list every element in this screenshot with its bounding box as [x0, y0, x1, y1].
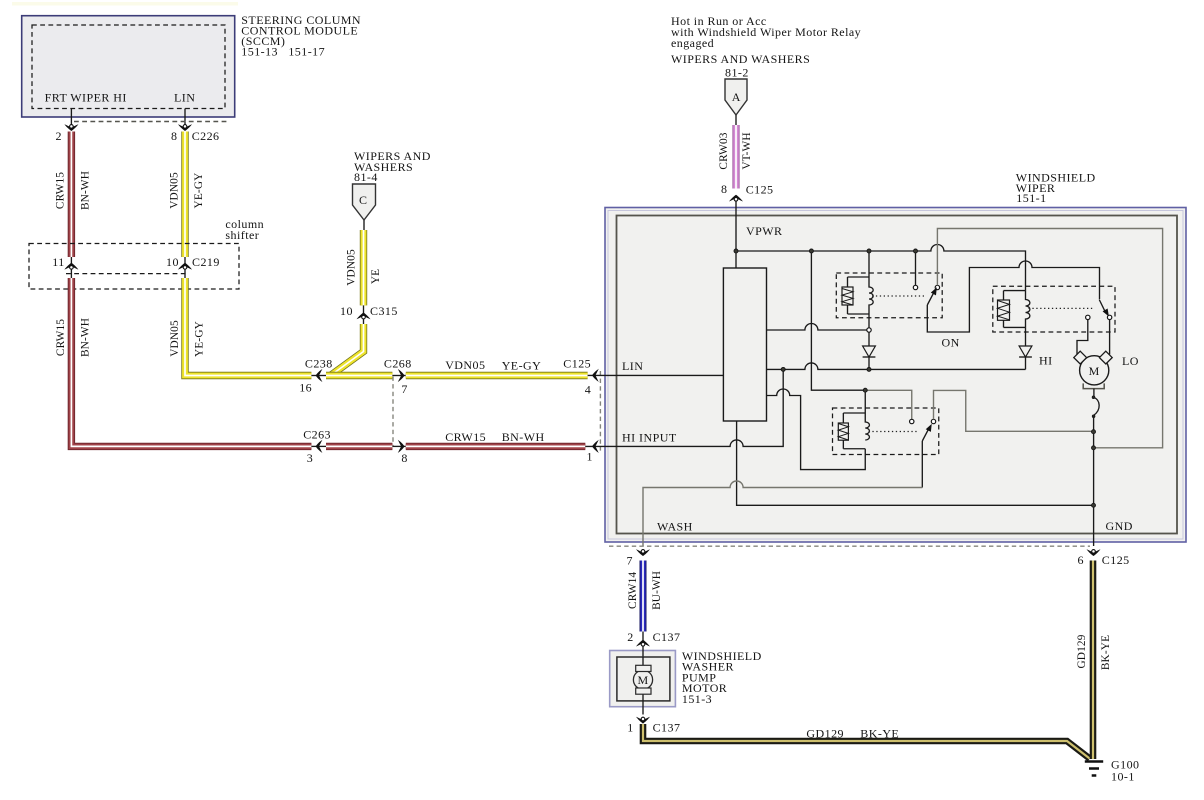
inductor K1 coil	[869, 251, 873, 314]
connector C219 pin10 stub	[184, 257, 186, 278]
svg-text:VDN05: VDN05	[445, 358, 485, 372]
svg-text:C: C	[359, 193, 367, 207]
svg-text:CRW03: CRW03	[718, 132, 730, 169]
connector C238 arrow pin 16	[316, 369, 323, 382]
wire stub below C pentagon	[363, 220, 365, 230]
connector C125 arrow pin 6	[1087, 549, 1101, 556]
module SCCM box	[22, 16, 235, 117]
wire through washer pump	[642, 657, 644, 701]
svg-text:2: 2	[627, 630, 633, 644]
wire HI INPUT into module	[585, 369, 783, 446]
svg-text:shifter: shifter	[225, 228, 259, 242]
diode D1	[863, 346, 876, 357]
svg-text:81-2: 81-2	[725, 66, 749, 80]
connector C315 arrow	[357, 313, 371, 320]
connector C125 arrow pin 4	[592, 369, 599, 382]
wire ON coil drive (y330)	[767, 324, 867, 330]
svg-text:10: 10	[166, 255, 179, 269]
relay K1 actuator dotted link	[872, 295, 924, 297]
svg-text:HI: HI	[1039, 354, 1053, 368]
wire VDN05 YE diagonal to junction	[331, 324, 364, 376]
svg-text:8: 8	[721, 182, 727, 196]
svg-text:151-3: 151-3	[682, 692, 712, 706]
wire washer coil drive	[767, 389, 866, 470]
connector C238 gap line	[311, 375, 327, 377]
ground G100	[1085, 762, 1103, 776]
svg-text:4: 4	[585, 383, 591, 397]
motor M2 washer pump	[633, 665, 652, 694]
connector C125 arrow pin 8	[729, 195, 743, 202]
wire diode D1 to y369	[868, 357, 870, 369]
contact K1 left	[913, 285, 917, 289]
label WINDSHIELD WASHER PUMP MOTOR 151-3	[682, 649, 762, 706]
label WINDSHIELD WIPER 151-1	[1016, 170, 1096, 205]
svg-text:YE-GY: YE-GY	[194, 321, 206, 357]
svg-text:81-4: 81-4	[354, 170, 378, 184]
relay K3 actuator dotted link	[869, 431, 920, 433]
svg-text:LIN: LIN	[174, 91, 195, 105]
connector C268 gap line red	[392, 445, 406, 447]
svg-text:BU-WH: BU-WH	[651, 571, 663, 610]
svg-text:10-1: 10-1	[1111, 770, 1135, 784]
svg-text:HI INPUT: HI INPUT	[622, 431, 677, 445]
resistor K2	[998, 300, 1010, 320]
svg-text:1: 1	[587, 450, 593, 464]
wire K1 NO contact loop to motor low side	[937, 229, 1162, 448]
wire motor to GND pin	[1093, 416, 1095, 546]
svg-text:151-13 151-17: 151-13 151-17	[241, 45, 325, 59]
svg-text:C219: C219	[192, 255, 220, 269]
svg-text:VDN05: VDN05	[169, 320, 181, 357]
motor M1 wiper	[1074, 351, 1112, 388]
svg-text:engaged: engaged	[671, 36, 714, 50]
wire CRW15 BN-WH lower	[71, 278, 311, 446]
wire K2 coil to diode	[1025, 327, 1027, 346]
wire CRW03 VT-WH	[732, 125, 739, 189]
washer pump inner outline	[617, 657, 670, 701]
wire VPWR to K3 NO contact	[865, 390, 912, 419]
connector C137 arrow pin 1	[636, 717, 650, 724]
connector C263 arrow pin 3	[316, 440, 323, 453]
wire CRW15 BN-WH between C263 and C268	[326, 443, 392, 450]
wire stub to washer motor	[642, 632, 644, 658]
svg-text:LO: LO	[1122, 354, 1139, 368]
svg-text:CRW14: CRW14	[627, 572, 639, 609]
svg-text:M: M	[637, 673, 648, 687]
svg-text:C125: C125	[746, 182, 774, 196]
svg-text:C137: C137	[653, 630, 681, 644]
wire pin8 stub	[184, 109, 186, 125]
wire bus branch x811	[811, 251, 865, 390]
wire coil to test point	[868, 314, 870, 328]
SCCM inner dashed outline	[32, 25, 225, 109]
wire VDN05 YE-GY lower	[185, 278, 311, 376]
connector pin 2 arrow	[64, 124, 78, 131]
wire WASH	[643, 481, 922, 546]
wire VPWR bus	[736, 245, 1026, 291]
relay K1 coil rails	[848, 277, 870, 314]
label G100 10-1	[1111, 758, 1139, 784]
label Hot in Run or Acc	[671, 14, 861, 50]
relay K3 coil rails	[843, 413, 865, 449]
wire LIN return (y369)	[767, 363, 1026, 370]
svg-text:C263: C263	[303, 428, 331, 442]
svg-text:7: 7	[401, 382, 407, 396]
connector C226 dashed line	[74, 121, 229, 123]
svg-text:BK-YE: BK-YE	[1100, 635, 1112, 670]
module washer pump box	[610, 651, 676, 707]
svg-text:3: 3	[307, 451, 313, 465]
wire LIN into module	[588, 374, 724, 376]
connector C268 dashed line	[392, 377, 394, 448]
label column shifter	[225, 217, 264, 242]
svg-text:YE-GY: YE-GY	[193, 173, 205, 209]
wire CRW14 BU-WH	[640, 561, 647, 632]
connector C315 stub	[363, 305, 365, 324]
relay K2 actuator dotted link	[1029, 307, 1095, 309]
svg-text:BN-WH: BN-WH	[502, 430, 545, 444]
diode D2	[1019, 346, 1032, 357]
svg-text:M: M	[1089, 364, 1100, 378]
svg-text:11: 11	[52, 255, 64, 269]
inductor K2 coil	[1026, 291, 1030, 328]
column shifter mid dashed line	[66, 273, 189, 275]
connector C268 arrow pin 7	[398, 369, 405, 382]
connector pin 8 arrow	[178, 124, 192, 131]
svg-text:10: 10	[340, 304, 353, 318]
svg-text:WASH: WASH	[657, 520, 693, 534]
wire CRW15 BN-WH to C125	[406, 443, 586, 450]
svg-text:C238: C238	[305, 356, 333, 370]
wire K3 common down	[921, 441, 923, 488]
svg-text:C226: C226	[192, 129, 220, 143]
thermal breaker hook	[1092, 389, 1099, 418]
connector C125 dashed line	[599, 371, 601, 451]
connector C219 pin11 stub	[70, 257, 72, 278]
svg-text:151-1: 151-1	[1016, 191, 1046, 205]
resistor K1	[842, 287, 853, 305]
contact K1 right	[935, 285, 939, 289]
module inner outline	[617, 216, 1178, 534]
wire GD129 BK-YE vertical	[1090, 561, 1097, 760]
wire VPWR entry	[735, 200, 737, 268]
label STEERING COLUMN CONTROL MODULE	[241, 13, 361, 59]
svg-text:8: 8	[171, 129, 177, 143]
svg-text:BN-WH: BN-WH	[79, 171, 91, 210]
control block rectangle	[723, 268, 766, 421]
svg-text:C137: C137	[653, 720, 681, 734]
wire pin2 stub	[70, 109, 72, 125]
wire CRW15 BN-WH upper	[68, 132, 75, 258]
connector C263 gap line	[311, 445, 327, 447]
decorative top band	[12, 2, 238, 6]
svg-text:C315: C315	[370, 304, 398, 318]
node test point K1	[867, 328, 871, 332]
relay K2 dashed box	[993, 286, 1115, 332]
contact K3 right	[931, 419, 935, 423]
svg-text:YE-GY: YE-GY	[502, 359, 542, 373]
wire K1 common to K2 arm	[927, 261, 1099, 332]
contact K2 LO	[1107, 315, 1111, 319]
connector C125 bottom dashed line	[609, 545, 1090, 547]
connector C219 pin 10 arrow	[178, 263, 192, 270]
svg-text:YE: YE	[370, 269, 382, 284]
svg-text:C125: C125	[1102, 553, 1130, 567]
connector C125 arrow pin 1	[592, 440, 599, 453]
svg-text:6: 6	[1078, 553, 1084, 567]
wire VDN05 YE vertical	[360, 230, 367, 305]
svg-text:ON: ON	[942, 336, 960, 350]
svg-text:C125: C125	[563, 356, 591, 370]
switch K2 arm	[1099, 300, 1111, 318]
junction dots	[734, 249, 1096, 507]
svg-text:7: 7	[627, 554, 633, 568]
svg-text:VDN05: VDN05	[345, 249, 357, 286]
svg-text:WIPERS AND WASHERS: WIPERS AND WASHERS	[671, 52, 810, 66]
wire bus branch x915	[915, 251, 917, 285]
relay K3 dashed box	[833, 408, 939, 455]
svg-text:BN-WH: BN-WH	[80, 318, 92, 357]
switch K1 arm	[927, 286, 939, 305]
svg-text:2: 2	[56, 129, 62, 143]
connector A pentagon	[725, 79, 747, 115]
connector C268 arrow pin 8	[398, 440, 405, 453]
connector C268 gap line yellow	[392, 375, 406, 377]
svg-text:GND: GND	[1106, 519, 1133, 533]
svg-text:GD129: GD129	[1076, 634, 1088, 668]
svg-text:GD129: GD129	[806, 726, 844, 740]
svg-text:VPWR: VPWR	[746, 224, 782, 238]
wire block bottom to GND rail	[737, 421, 1094, 505]
connector C219 pin 11 arrow	[64, 263, 78, 270]
wire stub below A pentagon	[735, 115, 737, 125]
wire K3 NC contact to motor low rail	[934, 390, 1094, 431]
svg-text:VT-WH: VT-WH	[741, 132, 753, 169]
wire GD129 BK-YE horizontal	[643, 724, 1090, 759]
wire HI contact to motor brush	[1077, 320, 1088, 355]
svg-text:CRW15: CRW15	[55, 319, 67, 356]
connector C125 arrow pin 7	[636, 549, 650, 556]
connector C137 arrow pin 2	[636, 640, 650, 647]
wire VDN05 YE-GY between C238 and C268	[326, 372, 392, 379]
wire LO contact to motor brush	[1109, 320, 1111, 355]
relay K1 dashed box	[836, 273, 942, 318]
svg-text:FRT WIPER HI: FRT WIPER HI	[45, 90, 127, 104]
wire stub below washer pump	[642, 701, 644, 715]
svg-text:LIN: LIN	[622, 359, 643, 373]
module WINDSHIELD WIPER box	[605, 208, 1186, 543]
svg-text:CRW15: CRW15	[55, 172, 67, 209]
svg-text:16: 16	[299, 381, 312, 395]
resistor K3	[838, 423, 848, 440]
wire diode D2 to y369	[1025, 357, 1027, 369]
contact K2 HI	[1086, 315, 1090, 319]
wire VDN05 YE-GY upper	[181, 132, 188, 258]
label WIPERS AND WASHERS 81-4	[354, 149, 431, 184]
svg-text:C268: C268	[384, 356, 412, 370]
svg-text:1: 1	[627, 720, 633, 734]
switch K3 arm	[922, 423, 934, 441]
connector C pentagon	[353, 184, 376, 220]
wire VDN05 YE-GY to C125	[406, 372, 588, 379]
svg-text:VDN05: VDN05	[168, 172, 180, 209]
column shifter dashed box	[29, 244, 239, 290]
relay K2 coil rails	[1004, 291, 1026, 328]
svg-text:A: A	[732, 90, 741, 104]
svg-text:BK-YE: BK-YE	[860, 726, 899, 740]
svg-text:8: 8	[401, 451, 407, 465]
wire test point to diode	[868, 332, 870, 346]
svg-text:CRW15: CRW15	[445, 430, 486, 444]
inductor K3 coil	[865, 390, 869, 440]
contact K3 left	[910, 419, 914, 423]
